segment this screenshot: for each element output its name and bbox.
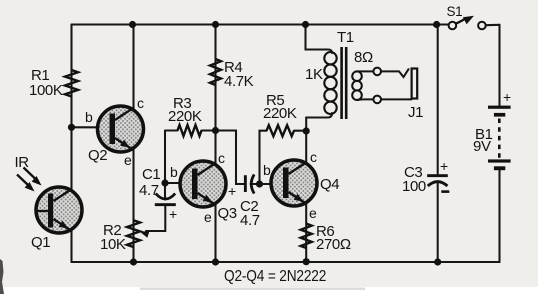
- label C3: [404, 164, 422, 181]
- wire T1 primary top lead: [306, 25, 333, 54]
- potentiometer R2 10K: [127, 220, 140, 247]
- switch S1: [449, 22, 457, 30]
- wire C2 feed from Q3 collector: [216, 131, 245, 185]
- label C1: [142, 166, 160, 183]
- wire base Q2: [72, 126, 111, 128]
- node top rail / C3-S1: [433, 21, 440, 28]
- transformer T1 secondary 8ohm: [352, 71, 362, 100]
- IR arrows: [17, 168, 42, 192]
- resistor R5 220K: [267, 125, 295, 136]
- node C2 / Q4 base / R5: [256, 180, 263, 187]
- wire C2 right lead: [251, 183, 260, 185]
- node R1 / Q2 base: [68, 124, 75, 131]
- wire jack sleeve lead: [381, 98, 412, 100]
- wire Q3/R4 branch x=215.5: [214, 25, 216, 263]
- label IR: [15, 154, 29, 171]
- faint scan smudge: [140, 288, 365, 290]
- label R3: [173, 95, 191, 112]
- R2 wiper arrow: [140, 231, 150, 238]
- resistor R3 220K: [178, 125, 202, 136]
- transistor Q2: [98, 106, 144, 152]
- wire R3 right leg: [202, 129, 216, 131]
- jack J1 plug body: [412, 69, 418, 99]
- capacitor C1 4.7: [155, 194, 176, 207]
- label Q2 pins: [85, 109, 92, 125]
- transformer T1 primary 1K: [324, 52, 336, 114]
- label R5: [266, 92, 284, 109]
- node bottom rail / Q3 emitter: [212, 258, 219, 265]
- wire C3 bottom lead: [437, 184, 439, 263]
- jack J1 terminal circles: [373, 68, 381, 76]
- label Q1: [31, 234, 50, 251]
- label R4: [224, 59, 242, 76]
- transistor Q4: [271, 160, 317, 206]
- wire R5 right leg: [294, 130, 306, 132]
- wire T1 primary bottom lead: [306, 113, 332, 118]
- wire C1 top lead: [164, 183, 166, 200]
- wire battery branch bottom: [498, 170, 500, 262]
- label R2: [103, 222, 121, 239]
- node top rail / T1: [302, 21, 309, 28]
- node top rail / R4: [212, 21, 219, 28]
- node top rail / Q2 collector: [129, 21, 136, 28]
- note Q2-Q4 = 2N2222: [224, 268, 326, 286]
- resistor R4 4.7K: [210, 59, 221, 85]
- label Q3 pins: [170, 164, 177, 180]
- wire C3 branch: [437, 25, 439, 175]
- wire base Q3: [165, 182, 192, 184]
- label T1: [337, 29, 354, 46]
- wire top rail right of switch: [486, 24, 500, 26]
- node bottom rail / C3: [434, 258, 441, 265]
- transformer T1 core: [340, 47, 343, 119]
- label Q4 pins: [263, 162, 270, 178]
- wire C1 bottom to wiper: [146, 206, 165, 231]
- wire battery branch top: [498, 25, 500, 106]
- label R1: [31, 67, 49, 84]
- wire R3 left leg: [165, 131, 178, 184]
- label S1: [447, 4, 463, 19]
- node C1 / Q3 base / R3: [161, 179, 168, 186]
- wire R5 left leg: [260, 131, 267, 184]
- resistor R6 270ohm: [301, 224, 312, 248]
- wire left branch x=71.5: [70, 25, 72, 263]
- transistor Q3: [180, 161, 226, 207]
- wire T1 secondary top lead: [357, 70, 373, 72]
- capacitor C3 100: [427, 174, 449, 193]
- wire Q4 branch x=306.2: [305, 118, 307, 263]
- node bottom rail / R2: [130, 258, 137, 265]
- resistor R1 100K: [65, 70, 78, 97]
- wire top rail: [72, 23, 449, 25]
- node R5 / Q4 collector / T1: [303, 127, 310, 134]
- node R3 / Q3 collector / C2: [212, 127, 219, 134]
- capacitor C2 4.7: [244, 175, 254, 194]
- label battery: [503, 89, 511, 105]
- wire T1 secondary bottom lead: [357, 98, 373, 101]
- wire Q2 branch x=133.5: [132, 25, 134, 263]
- battery B1 9V: [488, 106, 511, 109]
- wire bottom rail: [72, 261, 500, 263]
- node bottom rail / R6: [303, 258, 310, 265]
- label R6: [316, 223, 334, 240]
- wire jack tip contact: [381, 69, 409, 77]
- transistor Q1 (IR photo): [36, 187, 82, 233]
- label C2: [228, 183, 236, 199]
- scan blotch bottom-left edge: [0, 259, 4, 294]
- label J1: [408, 104, 423, 121]
- wire base Q4: [260, 183, 284, 185]
